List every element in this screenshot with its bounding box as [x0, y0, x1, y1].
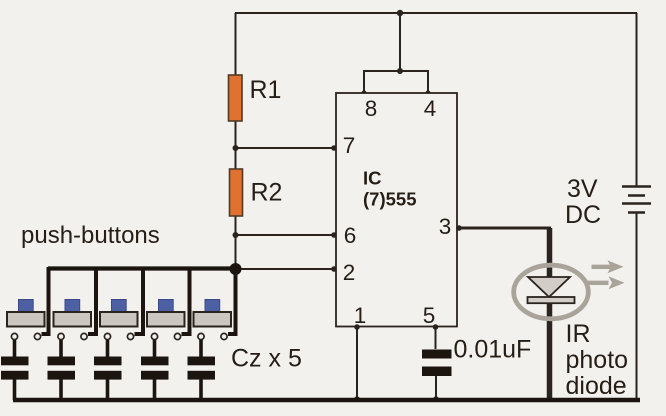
svg-text:DC: DC — [565, 201, 601, 229]
node C1 ground — [433, 396, 439, 402]
resistor R1 — [229, 75, 243, 121]
node R1/R2 junction pin 7 — [233, 145, 239, 151]
svg-text:3V: 3V — [567, 175, 598, 203]
wire from top rail down to pins 8/4 bracket — [399, 13, 401, 71]
capacitor Cz4 — [141, 357, 169, 380]
wire bus drop to S5 — [228, 267, 236, 334]
pin number 6 — [344, 223, 357, 248]
wire S5 to capacitor Cz5 — [199, 340, 203, 357]
push-button S4 — [147, 300, 185, 340]
svg-text:5: 5 — [423, 303, 436, 328]
wire bracket over pins 8 and 4 — [364, 71, 428, 93]
wire battery negative to ground rail — [636, 213, 638, 400]
svg-text:6: 6 — [344, 223, 357, 248]
svg-text:4: 4 — [424, 96, 437, 121]
svg-text:diode: diode — [566, 372, 627, 400]
label C1 value 0.01uF — [454, 336, 532, 364]
wire LED anode branch thick — [547, 228, 553, 278]
wire Cz4 to ground rail — [153, 379, 157, 400]
LED D1 triangle anode — [528, 277, 570, 297]
op-amp U1 IC 555 body — [336, 93, 457, 327]
wire S2 to capacitor Cz2 — [59, 340, 63, 357]
pin number 2 — [343, 260, 356, 285]
wire pin 6 to divider — [235, 234, 336, 236]
node pin 4 — [425, 90, 430, 95]
push-button S2 — [54, 300, 92, 340]
wire push-button bus thick — [48, 266, 236, 270]
wire Cz2 to ground rail — [59, 379, 63, 400]
capacitor Cz3 — [94, 357, 122, 380]
capacitor Cz2 — [48, 357, 76, 380]
svg-text:IC: IC — [363, 168, 382, 189]
push-button S5 — [194, 300, 232, 340]
wire S3 to capacitor Cz3 — [106, 340, 110, 357]
pin number 1 — [354, 303, 367, 328]
capacitor C1 0.01uF — [422, 350, 452, 377]
ground rail bottom — [13, 398, 640, 402]
svg-text:1: 1 — [354, 303, 367, 328]
LED D1 envelope circle — [514, 265, 589, 319]
node pin 2 at IC — [331, 266, 337, 272]
svg-text:R1: R1 — [250, 76, 282, 104]
svg-text:2: 2 — [343, 260, 356, 285]
node pin 6 at IC — [331, 232, 337, 238]
label Cz x 5 — [231, 345, 302, 373]
push-button S1 — [7, 300, 45, 340]
wire Cz1 to ground rail — [13, 379, 17, 400]
wire bus drop to S1 — [42, 267, 49, 334]
node pin 3 — [456, 225, 462, 231]
wire bus drop to S3 — [135, 267, 144, 334]
capacitor Cz1 — [1, 357, 29, 380]
svg-text:photo: photo — [566, 346, 629, 374]
wire LED cathode to ground thick — [547, 297, 553, 400]
push-button S3 — [100, 300, 138, 340]
wire Cz5 to ground rail — [199, 379, 203, 400]
node big junction pin 2 / bus — [230, 263, 242, 275]
wire S1 to capacitor Cz1 — [13, 340, 17, 357]
wire pin 1 to ground — [356, 327, 358, 399]
IR emission arrow lower — [588, 276, 625, 289]
battery BT1 plates — [622, 187, 651, 213]
node pin 1 ground — [354, 396, 360, 402]
svg-text:(7)555: (7)555 — [363, 189, 416, 210]
wire top supply rail — [235, 12, 637, 14]
wire bus drop to S4 — [182, 267, 190, 334]
wire pin 3 output — [457, 227, 551, 230]
node pin 7 at IC — [331, 145, 337, 151]
label push-buttons — [21, 222, 160, 249]
wire Cz3 to ground rail — [106, 379, 110, 400]
resistor R2 — [230, 169, 243, 216]
pin number 4 — [424, 96, 437, 121]
svg-text:Cz x 5: Cz x 5 — [231, 345, 302, 373]
wire bus drop to S2 — [88, 267, 96, 334]
svg-text:0.01uF: 0.01uF — [454, 336, 532, 364]
wire pin 5 to capacitor — [435, 327, 437, 349]
wire pin 7 to divider — [235, 147, 336, 149]
svg-text:7: 7 — [343, 133, 356, 158]
capacitor Cz5 — [188, 357, 216, 380]
svg-text:8: 8 — [365, 96, 378, 121]
pin number 8 — [365, 96, 378, 121]
wire left vertical R1/R2 branch — [235, 13, 237, 269]
node pin 8 — [361, 90, 366, 95]
label battery 3V DC — [565, 175, 601, 229]
svg-text:3: 3 — [439, 214, 452, 239]
label IC name — [363, 168, 416, 210]
pin number 5 — [423, 303, 436, 328]
node pin 1 top — [354, 324, 360, 330]
pin number 3 — [439, 214, 452, 239]
svg-text:push-buttons: push-buttons — [21, 222, 160, 249]
wire battery positive from top rail — [636, 13, 638, 186]
svg-text:IR: IR — [566, 320, 591, 348]
node bracket junction — [397, 68, 403, 74]
node divider junction pin 6 — [233, 232, 239, 238]
label IR photo diode — [566, 320, 629, 400]
svg-text:R2: R2 — [251, 179, 283, 207]
pin number 7 — [343, 133, 356, 158]
wire S4 to capacitor Cz4 — [153, 340, 157, 357]
node top junction — [397, 10, 403, 16]
label R1 value — [250, 76, 282, 104]
label R2 value — [251, 179, 283, 207]
LED D1 cathode bar — [528, 297, 575, 303]
wire pin 2 to button bus — [235, 268, 336, 270]
node pin 5 top — [433, 324, 439, 330]
IR emission arrow upper — [592, 260, 624, 273]
wire capacitor C1 to ground — [435, 376, 437, 399]
